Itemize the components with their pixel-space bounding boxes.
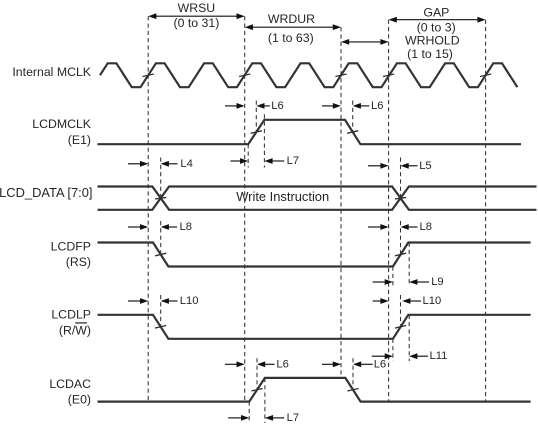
svg-text:WRHOLD: WRHOLD: [405, 34, 460, 48]
svg-text:(E0): (E0): [68, 393, 91, 407]
svg-text:Internal MCLK: Internal MCLK: [12, 65, 91, 79]
svg-text:L10: L10: [180, 295, 199, 307]
svg-text:LCDAC: LCDAC: [49, 377, 91, 391]
svg-text:L6: L6: [271, 100, 283, 112]
svg-text:(RS): (RS): [66, 255, 91, 269]
svg-text:LCDFP: LCDFP: [51, 240, 91, 254]
svg-text:L7: L7: [287, 412, 299, 424]
svg-text:L6: L6: [374, 358, 386, 370]
svg-text:L6: L6: [276, 358, 288, 370]
svg-text:L4: L4: [180, 158, 192, 170]
svg-text:L7: L7: [287, 155, 299, 167]
svg-text:(R/W): (R/W): [59, 323, 91, 337]
svg-text:GAP: GAP: [423, 5, 449, 19]
svg-text:(0 to 31): (0 to 31): [174, 16, 220, 30]
svg-text:L8: L8: [180, 221, 192, 233]
svg-text:L11: L11: [430, 350, 448, 362]
svg-text:LCDLP: LCDLP: [51, 308, 91, 322]
svg-text:L8: L8: [420, 221, 432, 233]
svg-text:L9: L9: [431, 276, 443, 288]
svg-text:(E1): (E1): [68, 133, 91, 147]
svg-text:LCDMCLK: LCDMCLK: [32, 117, 92, 131]
svg-text:(1 to 15): (1 to 15): [407, 47, 453, 61]
svg-text:LCD_DATA [7:0]: LCD_DATA [7:0]: [0, 185, 93, 200]
svg-text:(0 to 3): (0 to 3): [417, 20, 456, 34]
svg-text:L6: L6: [371, 100, 383, 112]
svg-text:WRSU: WRSU: [178, 1, 216, 15]
svg-text:Write Instruction: Write Instruction: [236, 189, 329, 204]
svg-text:L10: L10: [423, 295, 442, 307]
svg-text:L5: L5: [419, 160, 431, 172]
svg-text:WRDUR: WRDUR: [268, 12, 315, 26]
svg-text:(1 to 63): (1 to 63): [268, 31, 314, 45]
